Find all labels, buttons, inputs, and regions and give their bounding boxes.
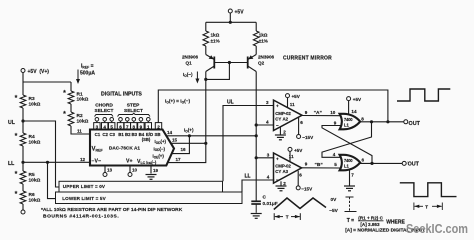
svg-text:9: 9 bbox=[334, 121, 337, 126]
wire R1 to R2 bbox=[70, 104, 72, 112]
svg-text:+5V: +5V bbox=[294, 148, 303, 153]
svg-text:CMP-02: CMP-02 bbox=[275, 111, 291, 116]
resistor R6 10k bbox=[20, 191, 26, 204]
terminal +5V current mirror bbox=[228, 9, 232, 13]
pin box 3 bbox=[94, 123, 100, 130]
pin box 9 bbox=[138, 123, 144, 130]
wire Q2 collector down to cap bus bbox=[255, 72, 257, 202]
junction Q1 collector diode connect bbox=[204, 78, 207, 81]
input terminal pin 3 bbox=[95, 118, 99, 122]
svg-text:9: 9 bbox=[305, 110, 308, 115]
junction base tie bbox=[228, 61, 231, 64]
wire terminal to pin 9 bbox=[140, 121, 142, 123]
wire L2 output to L1 input 9 cross couple bbox=[322, 126, 372, 164]
svg-text:WHERE: WHERE bbox=[386, 220, 405, 226]
svg-text:R3: R3 bbox=[29, 96, 35, 102]
gate L1 7400 NAND body bbox=[340, 114, 361, 130]
terminal OUT-bar bbox=[402, 161, 406, 165]
dimension T bottom square wave bbox=[414, 203, 442, 211]
svg-text:6: 6 bbox=[362, 158, 365, 163]
svg-text:+: + bbox=[276, 104, 279, 109]
svg-text:2: 2 bbox=[283, 181, 286, 186]
wire UL to upper-limit riser bbox=[23, 121, 59, 187]
pin box 4 bbox=[102, 123, 108, 130]
svg-text:(SB): (SB) bbox=[142, 137, 151, 142]
svg-text:CY A3: CY A3 bbox=[275, 169, 288, 174]
svg-text:R5: R5 bbox=[29, 172, 35, 178]
svg-text:R4: R4 bbox=[29, 134, 35, 140]
junction L1 out to cross couple bbox=[370, 120, 373, 123]
ground capacitor bbox=[251, 214, 262, 219]
wire L1 output to OUT bbox=[360, 121, 404, 123]
wire DAC pin 17 IOE(-) bbox=[168, 143, 206, 162]
wire L1 output to L2 input 4 cross couple bbox=[322, 122, 372, 158]
wire A3 pin 11 stub bbox=[289, 151, 291, 161]
waveform square top OUT bbox=[397, 89, 450, 101]
wire L2 pin 7 stub bbox=[349, 170, 351, 186]
svg-text:DAC-76CK A1: DAC-76CK A1 bbox=[109, 146, 140, 151]
svg-text:BOURNS #4114R-001-103S.: BOURNS #4114R-001-103S. bbox=[43, 213, 119, 219]
bracket step select bbox=[118, 113, 151, 116]
svg-text:*: * bbox=[15, 95, 18, 102]
junction IO(+) sum node bbox=[188, 134, 191, 137]
svg-text:+5V (V+): +5V (V+) bbox=[28, 69, 50, 75]
svg-text:10kΩ: 10kΩ bbox=[77, 97, 89, 103]
wire terminal to pin 1 bbox=[147, 121, 149, 123]
svg-text:LL: LL bbox=[245, 174, 251, 180]
input terminal pin 5 bbox=[110, 118, 114, 122]
resistor R2 10k bbox=[68, 112, 74, 126]
svg-text:C2: C2 bbox=[102, 132, 108, 137]
svg-text:3: 3 bbox=[267, 152, 270, 157]
svg-text:−15V: −15V bbox=[302, 135, 314, 140]
wire A3 output to gate L2 input 5 bbox=[302, 167, 341, 169]
svg-text:IO(+) = IO(−): IO(+) = IO(−) bbox=[165, 99, 191, 105]
terminal +5V L1 pin 14 bbox=[347, 97, 351, 101]
terminal +5V (V+) supply bbox=[21, 69, 25, 73]
svg-text:−15V: −15V bbox=[301, 186, 313, 191]
junction L1 out to E/D wire bbox=[386, 120, 389, 123]
wire DAC pin 19 VLC bbox=[150, 166, 152, 174]
wire DAC pin 14 IOD(+) to bus bbox=[166, 135, 256, 137]
input terminal pin 1 bbox=[147, 118, 151, 122]
svg-text:IOE(+): IOE(+) bbox=[153, 154, 165, 160]
svg-text:C3: C3 bbox=[109, 132, 115, 137]
wire +5V stub bbox=[229, 13, 231, 22]
ground A3 bbox=[276, 186, 287, 191]
svg-text:(R1 + R2) C: (R1 + R2) C bbox=[358, 216, 383, 221]
wire rail to right 1k bbox=[255, 22, 257, 31]
svg-text:LOWER LIMIT = 5V: LOWER LIMIT = 5V bbox=[62, 196, 106, 201]
wire A2 pin 6 stub bbox=[298, 117, 300, 134]
input terminal pin 8 bbox=[132, 118, 136, 122]
svg-text:14: 14 bbox=[167, 130, 173, 135]
svg-text:CMP-02: CMP-02 bbox=[275, 164, 291, 169]
svg-text:10kΩ: 10kΩ bbox=[29, 140, 41, 146]
svg-text:2N3906: 2N3906 bbox=[182, 55, 199, 60]
svg-text:*: * bbox=[63, 90, 66, 97]
ground L2 bbox=[344, 186, 355, 191]
svg-text:±1%: ±1% bbox=[259, 39, 268, 44]
resistor R1 10k bbox=[68, 91, 74, 104]
svg-text:4: 4 bbox=[266, 120, 269, 125]
wire R3 to R4 through UL bbox=[22, 108, 24, 133]
wire DAC pin 13 V- bbox=[104, 166, 106, 173]
waveform triangle bbox=[274, 198, 326, 210]
svg-text:Q1: Q1 bbox=[186, 61, 193, 66]
label box UPPER LIMIT = 0V bbox=[59, 181, 223, 192]
wire +5V down to rail and R3 bbox=[22, 73, 24, 96]
svg-text:13: 13 bbox=[107, 168, 113, 173]
svg-text:7: 7 bbox=[351, 173, 354, 178]
svg-text:4: 4 bbox=[267, 175, 270, 180]
svg-text:V+: V+ bbox=[126, 159, 133, 165]
wire Q1 collector down to IO(-) node bbox=[205, 72, 207, 144]
svg-text:6: 6 bbox=[299, 173, 302, 178]
svg-text:CY A2: CY A2 bbox=[275, 117, 288, 122]
svg-text:12: 12 bbox=[80, 157, 86, 162]
svg-text:IOE(−): IOE(−) bbox=[146, 160, 157, 165]
svg-text:7400: 7400 bbox=[344, 117, 353, 122]
svg-text:UPPER LIMIT = 0V: UPPER LIMIT = 0V bbox=[63, 184, 106, 189]
gate L2 7400 NAND body bbox=[340, 155, 361, 171]
pin box 8 bbox=[131, 123, 137, 130]
svg-text:±1%: ±1% bbox=[211, 39, 220, 44]
wire LL to lower-limit riser bbox=[48, 162, 57, 198]
wire DAC pin 16 IOE(+) bbox=[172, 136, 190, 154]
svg-text:19: 19 bbox=[153, 168, 159, 173]
wire left 1k to Q1 emitter bbox=[205, 46, 207, 55]
input terminal pin 9 bbox=[139, 118, 143, 122]
wire lower limit riser to A3 - input bbox=[242, 180, 274, 192]
wire terminal to pin 7 bbox=[126, 121, 128, 123]
svg-text:*: * bbox=[63, 111, 66, 118]
input terminal pin 6 bbox=[119, 118, 123, 122]
op-amp A3 CMP-02 triangle bbox=[274, 153, 302, 183]
svg-text:+5V: +5V bbox=[235, 10, 245, 16]
svg-text:R6: R6 bbox=[29, 192, 35, 198]
dimension bracket 0V to -5V bbox=[345, 197, 357, 212]
ground DAC VLC bbox=[146, 175, 157, 180]
wire terminal to pin 5 bbox=[111, 121, 113, 123]
node LL branch junction bbox=[46, 161, 49, 164]
svg-text:+5V: +5V bbox=[353, 97, 362, 102]
input terminal pin 4 bbox=[103, 118, 107, 122]
resistor 1k 1% right bbox=[253, 31, 259, 46]
svg-text:T: T bbox=[286, 214, 289, 219]
wire A2 pin 2 stub bbox=[279, 127, 281, 135]
resistor R5 10k bbox=[20, 171, 26, 184]
wire A2 pin 11 stub bbox=[287, 98, 289, 108]
wire pin 2 to latch OUT node bbox=[158, 90, 388, 123]
svg-text:V−: V− bbox=[95, 159, 102, 165]
op-amp U1 DAC-76CK A1 body bbox=[90, 130, 174, 166]
svg-text:15: 15 bbox=[172, 137, 178, 142]
svg-text:6: 6 bbox=[300, 120, 303, 125]
pin box 6 bbox=[117, 123, 123, 130]
svg-text:DIGITAL INPUTS: DIGITAL INPUTS bbox=[101, 92, 142, 98]
pin box 1 bbox=[145, 123, 151, 130]
wire terminal to pin 6 bbox=[120, 121, 122, 123]
wire terminal to pin 4 bbox=[104, 121, 106, 123]
svg-text:CHORD: CHORD bbox=[95, 103, 113, 109]
arrow IO(-) current bbox=[195, 72, 199, 84]
svg-text:B3: B3 bbox=[131, 132, 137, 137]
node LL junction bbox=[21, 161, 24, 164]
svg-text:−: − bbox=[276, 123, 279, 128]
svg-text:4: 4 bbox=[333, 152, 336, 157]
resistor R4 10k bbox=[20, 133, 26, 146]
svg-text:IOD(−): IOD(−) bbox=[154, 146, 166, 152]
wire L2 output to OUTbar bbox=[360, 162, 402, 164]
svg-text:B2: B2 bbox=[125, 132, 131, 137]
svg-text:OUT: OUT bbox=[408, 162, 420, 168]
dimension T triangle wave bbox=[274, 213, 300, 220]
svg-text:SELECT: SELECT bbox=[95, 108, 114, 114]
svg-text:10kΩ: 10kΩ bbox=[77, 119, 89, 125]
terminal bottom of divider bbox=[21, 210, 25, 214]
op-amp A2 CMP-02 triangle bbox=[274, 100, 303, 130]
wire +5V rail to R1 branch bbox=[23, 81, 71, 83]
input terminal pin 7 bbox=[126, 118, 130, 122]
svg-text:−5V: −5V bbox=[329, 208, 338, 214]
svg-text:9: 9 bbox=[305, 162, 308, 167]
wire base tie to Q1 collector (diode connect) bbox=[206, 63, 230, 80]
wire DAC pin 15 IOD(-) bbox=[171, 142, 206, 144]
terminal -15V A3 bbox=[296, 186, 300, 190]
resistor R3 10k bbox=[20, 95, 26, 108]
svg-text:*: * bbox=[15, 191, 18, 198]
svg-text:10: 10 bbox=[132, 168, 138, 173]
svg-text:UL: UL bbox=[8, 120, 16, 126]
svg-text:T: T bbox=[425, 204, 428, 209]
svg-text:CURRENT MIRROR: CURRENT MIRROR bbox=[283, 56, 332, 62]
svg-text:OUT: OUT bbox=[409, 121, 421, 127]
svg-text:16: 16 bbox=[181, 147, 187, 152]
svg-text:14: 14 bbox=[351, 109, 357, 114]
transistor Q2 2N3906 bbox=[248, 55, 257, 72]
wire rail corner down to R1 bbox=[70, 82, 72, 91]
svg-text:10kΩ: 10kΩ bbox=[29, 198, 41, 204]
wire A2 pin 4 from bus bbox=[256, 124, 273, 126]
svg-text:500μA: 500μA bbox=[80, 71, 95, 77]
pin box 2 bbox=[155, 123, 161, 130]
wire DAC pin 10 V+ bbox=[129, 166, 131, 173]
svg-text:3: 3 bbox=[266, 100, 269, 105]
svg-text:L1: L1 bbox=[344, 122, 350, 127]
svg-text:C: C bbox=[263, 195, 267, 201]
junction bus to A2 inverting input bbox=[255, 123, 258, 126]
resistor 1k 1% left bbox=[203, 31, 209, 46]
svg-text:*: * bbox=[15, 171, 18, 178]
wire terminal to pin 8 bbox=[133, 121, 135, 123]
wire right 1k to Q2 emitter bbox=[255, 46, 257, 55]
junction IO(-) sum node bbox=[204, 142, 207, 145]
formula fraction bar bbox=[358, 220, 384, 222]
terminal pin 10 bbox=[128, 173, 132, 177]
svg-text:*ALL 10kΩ RESISTORS ARE PART O: *ALL 10kΩ RESISTORS ARE PART OF 14-PIN D… bbox=[41, 207, 183, 213]
svg-text:*: * bbox=[15, 133, 18, 140]
wire upper limit riser to A2 + input bbox=[223, 106, 274, 182]
terminal OUT bbox=[404, 120, 408, 124]
svg-text:IOD(+): IOD(+) bbox=[155, 139, 167, 145]
terminal +5V A3 pin 11 bbox=[288, 147, 292, 151]
bracket chord select bbox=[95, 115, 114, 117]
svg-text:5: 5 bbox=[334, 162, 337, 167]
svg-text:C1: C1 bbox=[95, 132, 101, 137]
svg-text:“A”: “A” bbox=[314, 110, 323, 116]
svg-text:−: − bbox=[276, 178, 279, 183]
svg-text:R2: R2 bbox=[77, 113, 83, 119]
transistor Q1 2N3906 bbox=[206, 55, 215, 72]
svg-text:“B”: “B” bbox=[315, 162, 324, 168]
svg-text:IO(−): IO(−) bbox=[183, 72, 193, 78]
svg-text:STEP: STEP bbox=[127, 103, 140, 109]
svg-text:+5V: +5V bbox=[292, 94, 301, 99]
capacitor C 0.01uF bbox=[251, 201, 261, 213]
svg-text:1kΩ: 1kΩ bbox=[211, 33, 220, 38]
svg-text:11: 11 bbox=[290, 102, 295, 107]
svg-text:SeekIC.com: SeekIC.com bbox=[406, 221, 468, 236]
svg-text:LL: LL bbox=[8, 161, 15, 167]
wire A3 pin 2 stub bbox=[280, 181, 282, 185]
svg-text:10kΩ: 10kΩ bbox=[29, 102, 41, 108]
wire LL to DAC pin 12 bbox=[23, 161, 90, 163]
svg-text:11: 11 bbox=[289, 154, 294, 159]
svg-text:7400: 7400 bbox=[344, 158, 353, 163]
wire terminal to pin 3 bbox=[96, 121, 98, 123]
junction pin14 wire to cap bus bbox=[255, 134, 258, 137]
svg-text:+: + bbox=[276, 156, 279, 161]
ground A2 bbox=[275, 135, 286, 140]
junction bus to A3 noninverting input bbox=[255, 156, 258, 159]
svg-text:2N3906: 2N3906 bbox=[258, 55, 275, 60]
wire R2 to DAC pin 11 VREF bbox=[71, 126, 90, 134]
svg-text:[A] 3.863: [A] 3.863 bbox=[360, 222, 380, 227]
terminal +5V A2 pin 11 bbox=[286, 94, 290, 98]
svg-text:UL: UL bbox=[227, 100, 234, 106]
wire A2 output to gate L1 input 10 bbox=[302, 115, 341, 117]
wire R5 to R6 bbox=[22, 184, 24, 191]
svg-text:0V: 0V bbox=[331, 197, 338, 203]
svg-text:SB: SB bbox=[154, 132, 160, 137]
wire R6 to bottom terminal bbox=[22, 204, 24, 210]
svg-text:0.01μF: 0.01μF bbox=[263, 201, 278, 207]
svg-text:Q2: Q2 bbox=[258, 61, 265, 66]
svg-text:T =: T = bbox=[347, 218, 354, 224]
svg-text:IO(+): IO(+) bbox=[184, 128, 194, 134]
svg-text:1kΩ: 1kΩ bbox=[259, 33, 268, 38]
wire A3 pin 3 from bus bbox=[256, 157, 274, 159]
terminal pin 13 bbox=[103, 173, 107, 177]
svg-text:B1: B1 bbox=[118, 132, 124, 137]
svg-text:17: 17 bbox=[176, 157, 182, 162]
wire R4 to R5 through LL bbox=[22, 146, 24, 171]
svg-text:2: 2 bbox=[283, 130, 286, 135]
pin box 7 bbox=[124, 123, 130, 130]
pin box 5 bbox=[109, 123, 115, 130]
label box LOWER LIMIT = 5V bbox=[56, 192, 243, 204]
junction L2 out to cross couple bbox=[370, 162, 373, 165]
terminal -15V A2 bbox=[297, 135, 301, 139]
svg-text:10: 10 bbox=[330, 110, 336, 115]
node UL junction bbox=[21, 119, 24, 122]
arrow IREF current bbox=[76, 70, 80, 85]
svg-text:10kΩ: 10kΩ bbox=[29, 178, 41, 184]
svg-text:L1: L1 bbox=[344, 163, 350, 168]
wire rail to left 1k bbox=[205, 22, 207, 31]
wire L1 pin 14 stub bbox=[348, 101, 350, 115]
wire A3 pin 6 stub bbox=[297, 171, 299, 186]
junction mirror rail bbox=[229, 21, 232, 24]
wire Q1-Q2 base tie bbox=[214, 62, 247, 64]
wire mirror rail bbox=[206, 21, 256, 23]
svg-text:11: 11 bbox=[77, 129, 82, 134]
svg-text:8: 8 bbox=[361, 116, 364, 121]
waveform square bottom OUTbar bbox=[400, 183, 457, 197]
